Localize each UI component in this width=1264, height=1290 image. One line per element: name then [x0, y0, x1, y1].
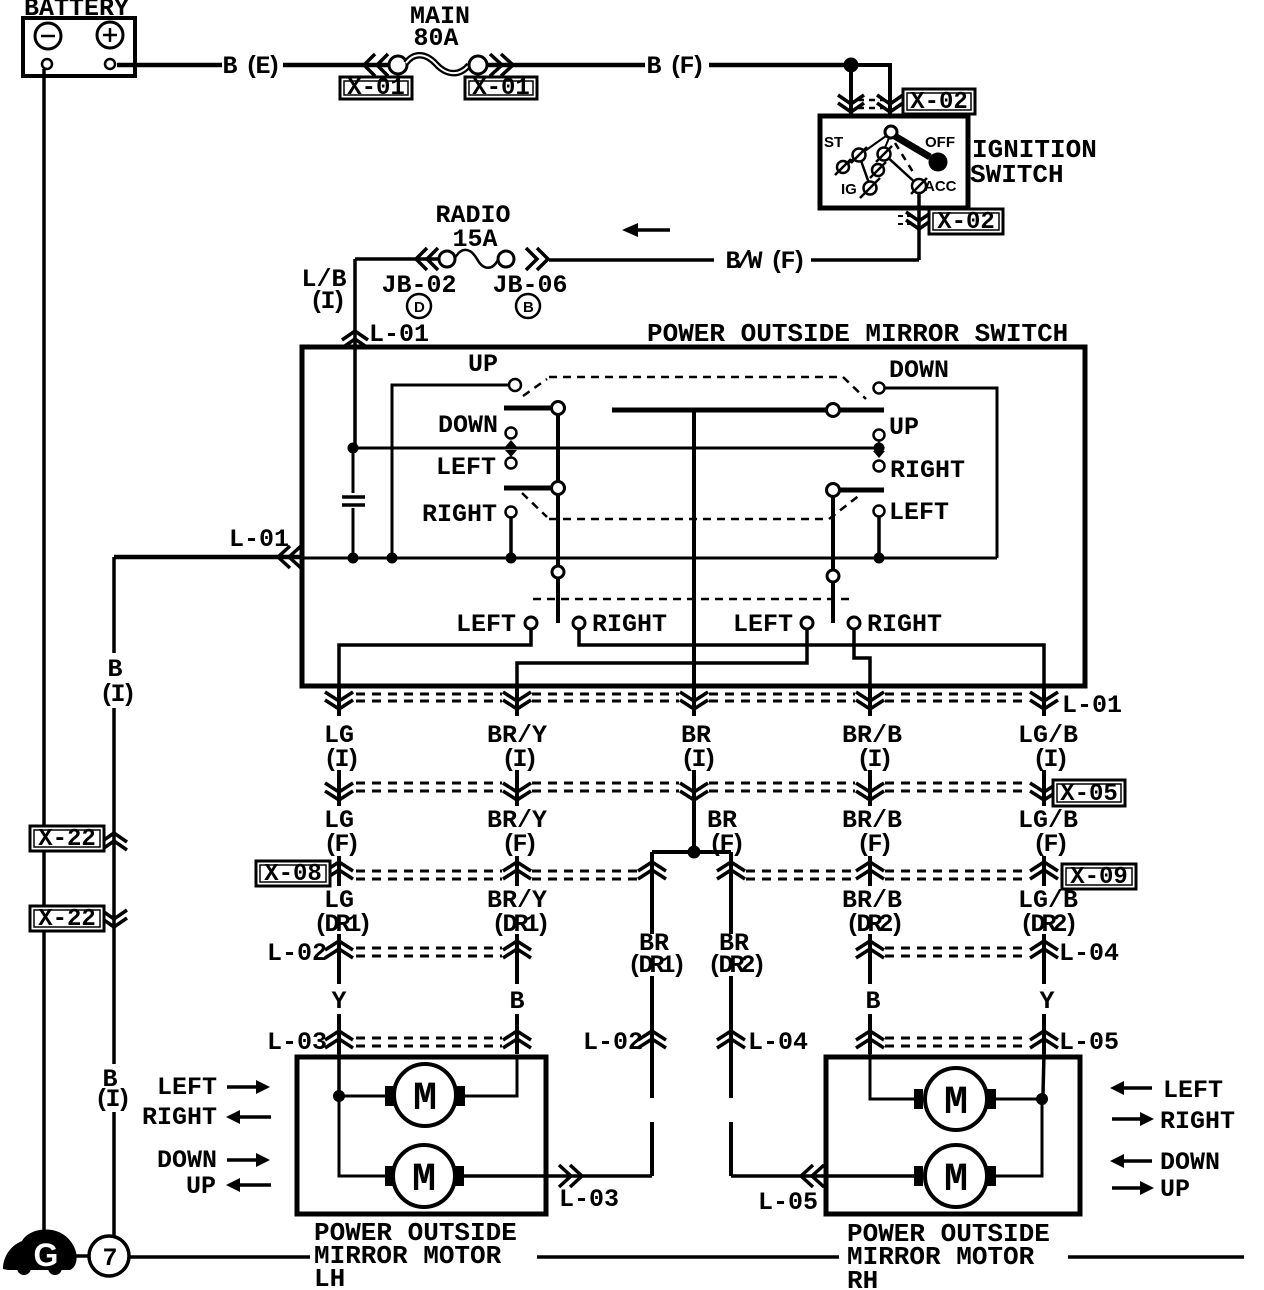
power outside mirror motor RH box: [826, 1057, 1080, 1214]
svg-text:G: G: [34, 1237, 59, 1273]
capacitor: [342, 453, 365, 558]
contact bar left/right (RH): [839, 488, 884, 493]
svg-text:X-08: X-08: [264, 861, 322, 888]
fuse RADIO 15A: [416, 201, 548, 270]
svg-text:LEFT: LEFT: [157, 1073, 217, 1102]
wire BR (DR1): [650, 852, 654, 1176]
wire B(E) battery positive to MAIN fuse: [117, 63, 222, 68]
mechanical linkage dashed (lower): [522, 493, 861, 519]
wire RH motor2 output L-05: [731, 1174, 914, 1178]
svg-text:B: B: [509, 987, 524, 1016]
RH mirror direction arrows: [1110, 1076, 1235, 1204]
connector X-22 chevrons (lower): [101, 910, 127, 927]
harness L-02/L-04 chevrons: [325, 941, 1058, 958]
wire LEFT2 to BR/Y output: [517, 629, 807, 688]
svg-text:OFF: OFF: [925, 134, 955, 151]
internal bus wire: [302, 557, 997, 560]
contact bar up/down (LH): [504, 406, 551, 411]
svg-text:M: M: [412, 1158, 436, 1203]
svg-text:(I): (I): [501, 745, 534, 774]
svg-text:15A: 15A: [452, 225, 497, 254]
motor M RH left/right: [914, 1145, 996, 1207]
svg-text:X-02: X-02: [937, 209, 995, 236]
connector X-05 dashed: [356, 783, 1029, 791]
pole LH up/down: [556, 414, 560, 482]
wire into RH motor (Y): [1043, 1054, 1044, 1094]
wire BR (DR2): [729, 852, 733, 1176]
svg-text:B/W (F): B/W (F): [725, 247, 802, 276]
svg-text:RIGHT: RIGHT: [867, 610, 942, 639]
svg-text:L-02: L-02: [583, 1028, 643, 1057]
svg-text:DOWN: DOWN: [438, 411, 498, 440]
ignition switch box: [820, 116, 968, 208]
contact arrows (LH): [505, 440, 517, 447]
contact arrows (RH): [873, 441, 885, 448]
svg-text:(DR1): (DR1): [313, 910, 368, 939]
ignition switch internals: [824, 126, 957, 198]
svg-text:(I): (I): [680, 745, 713, 774]
svg-text:RH: RH: [847, 1266, 878, 1290]
svg-text:SWITCH: SWITCH: [970, 160, 1064, 190]
wire into RH motor (B): [870, 1054, 914, 1099]
harness wire LG column: [337, 688, 341, 1054]
wire L-01 feed into switch: [114, 555, 302, 560]
svg-text:L-05: L-05: [1059, 1028, 1119, 1057]
svg-text:LEFT: LEFT: [1163, 1076, 1223, 1105]
contact bar up/down (RH) with BR output: [612, 408, 884, 413]
wire LEFT1 to LG output: [339, 629, 531, 688]
mechanical linkage dashed (upper): [523, 377, 866, 399]
connector X-08/X-09 dashed: [356, 871, 1029, 879]
svg-text:DOWN: DOWN: [1160, 1148, 1220, 1177]
svg-text:LH: LH: [314, 1264, 345, 1290]
node RH motor junction: [1036, 1093, 1048, 1105]
terminal UP (LH): [509, 379, 521, 391]
motor M LH up/down: [385, 1064, 465, 1126]
wire RIGHT terminal to bus: [509, 518, 513, 558]
pole RH left/right: [831, 496, 835, 570]
svg-text:(DR2): (DR2): [1019, 910, 1074, 939]
svg-text:LEFT: LEFT: [733, 610, 793, 639]
L-05 exit chevrons: [801, 1165, 824, 1187]
harness wire BR column: [692, 688, 696, 848]
motor M RH up/down: [914, 1068, 996, 1130]
svg-text:Y: Y: [1039, 987, 1054, 1016]
svg-text:M: M: [944, 1158, 968, 1203]
svg-text:(F): (F): [708, 830, 741, 859]
harness L-03/L-05 chevrons: [325, 1031, 1058, 1048]
svg-text:X-01: X-01: [347, 75, 405, 102]
svg-text:(I): (I): [856, 745, 889, 774]
svg-text:RIGHT: RIGHT: [422, 500, 497, 529]
node 7: [71, 1236, 129, 1276]
wire LH motor2 output L-03: [464, 1174, 652, 1178]
wire LH motor1 to B column: [465, 1057, 517, 1096]
bottom terminal RIGHT (2): [848, 617, 860, 629]
wire battery negative to ground: [42, 69, 46, 1240]
wire B(F) fuse to ignition switch: [487, 63, 645, 68]
power outside mirror motor LH box: [297, 1057, 546, 1214]
wire L/B from fuse to mirror switch: [355, 257, 439, 261]
current direction arrow: [622, 223, 670, 237]
svg-text:RIGHT: RIGHT: [142, 1103, 217, 1132]
terminal UP (RH): [874, 430, 885, 441]
wire BR output pole: [692, 410, 696, 688]
svg-text:(I): (I): [309, 287, 342, 316]
bottom terminal LEFT (1): [525, 617, 537, 629]
connector X-05 chevrons: [325, 783, 1058, 800]
svg-text:80A: 80A: [413, 24, 458, 53]
contact bar left/right (LH): [504, 486, 551, 491]
svg-text:(I): (I): [1032, 745, 1065, 774]
svg-text:(F): (F): [856, 830, 889, 859]
svg-text:(DR1): (DR1): [491, 910, 546, 939]
connector X-02 (upper) chevrons: [838, 95, 903, 112]
bottom terminal RIGHT (1): [573, 617, 585, 629]
svg-text:LEFT: LEFT: [436, 453, 496, 482]
svg-text:BATTERY: BATTERY: [24, 0, 129, 23]
connector X-02 (lower) label box: [929, 209, 1003, 236]
svg-text:DOWN: DOWN: [157, 1146, 217, 1175]
power outside mirror switch box: [302, 347, 1085, 686]
wire ACC output: [917, 192, 921, 260]
connector X-09 label box: [1062, 864, 1136, 891]
node LH motor junction: [333, 1090, 345, 1102]
connector X-08 label box: [256, 861, 330, 888]
wire B/W(F): [811, 258, 919, 262]
wire into LH motor (Y): [337, 1054, 341, 1096]
svg-text:RIGHT: RIGHT: [890, 456, 965, 485]
terminal RIGHT (RH): [874, 461, 885, 472]
wire DOWN terminal to bus (RH): [884, 388, 997, 558]
connector X-01 (left): [340, 75, 412, 102]
ground bus wire: [129, 1255, 1244, 1259]
svg-text:DOWN: DOWN: [889, 356, 949, 385]
terminal RIGHT (LH): [506, 507, 517, 518]
node ignition feed junction: [844, 58, 859, 73]
connector X-05 label box: [1053, 780, 1125, 808]
svg-text:(I): (I): [94, 1085, 127, 1114]
svg-text:M: M: [413, 1077, 437, 1122]
connector X-08/X-09 chevrons: [325, 862, 1058, 879]
bottom terminal LEFT (2): [801, 617, 813, 629]
battery: [23, 18, 135, 76]
svg-text:B: B: [523, 299, 534, 316]
wire RH motor1 to junction: [996, 1098, 1042, 1101]
wire RIGHT1 to LG/B output: [579, 629, 1044, 688]
svg-text:(F): (F): [1032, 830, 1065, 859]
svg-text:ST: ST: [824, 134, 843, 151]
harness L-01 dashed: [356, 694, 1029, 701]
svg-text:D: D: [414, 299, 425, 316]
terminal DOWN (LH): [506, 428, 517, 439]
svg-text:(DR2): (DR2): [707, 951, 762, 980]
wire junction loop to ignition pivot: [851, 65, 890, 129]
svg-text:L-01: L-01: [229, 525, 289, 554]
svg-text:L-04: L-04: [1059, 939, 1119, 968]
connector X-01 (right): [465, 75, 537, 102]
svg-text:LEFT: LEFT: [456, 610, 516, 639]
wire RIGHT2 to BR/B output: [854, 629, 870, 688]
L-03 exit chevrons: [559, 1165, 582, 1187]
svg-text:X-09: X-09: [1070, 864, 1128, 891]
svg-text:X-05: X-05: [1060, 781, 1118, 808]
junction dots: [348, 443, 359, 454]
wire junction to LH motor2: [339, 1096, 385, 1176]
junction block JB-02 terminal D: [381, 271, 456, 318]
terminal DOWN (RH): [874, 383, 885, 394]
connector X-22 chevrons (upper): [101, 833, 127, 850]
svg-text:L-01: L-01: [1062, 691, 1122, 720]
harness L-01 connector chevrons: [325, 692, 1058, 709]
harness wire BR/Y column: [515, 688, 519, 1054]
svg-text:(F): (F): [501, 830, 534, 859]
svg-text:(I): (I): [99, 680, 132, 709]
common feed wire: [353, 447, 879, 450]
svg-text:LEFT: LEFT: [889, 498, 949, 527]
harness wire LG/B column: [1042, 688, 1046, 1054]
svg-text:B (F): B (F): [646, 52, 701, 81]
motor M LH left/right: [385, 1145, 464, 1207]
svg-text:IG: IG: [841, 181, 857, 198]
connector X-22 label box (upper): [30, 826, 104, 853]
svg-text:X-22: X-22: [38, 906, 96, 933]
svg-text:X-01: X-01: [472, 75, 530, 102]
wire UP feed (LH half): [392, 385, 509, 558]
svg-text:(DR2): (DR2): [845, 910, 900, 939]
svg-text:L-03: L-03: [267, 1028, 327, 1057]
svg-text:B (E): B (E): [222, 52, 277, 81]
harness L-02/L-04 dashed: [356, 948, 1029, 956]
wire B(I) from L-01 to ground node: [112, 557, 116, 1236]
mechanical linkage dashed (bottom): [533, 598, 855, 601]
svg-text:UP: UP: [186, 1172, 216, 1201]
svg-text:(I): (I): [323, 745, 356, 774]
wire LEFT terminal to bus (RH): [877, 517, 881, 558]
fuse MAIN 80A: [364, 2, 513, 76]
terminal LEFT (LH): [506, 458, 517, 469]
wire junction to RH motor2: [996, 1099, 1042, 1176]
svg-text:L-04: L-04: [748, 1028, 808, 1057]
svg-text:(DR1): (DR1): [627, 951, 682, 980]
svg-text:L-02: L-02: [267, 939, 327, 968]
svg-text:X-02: X-02: [910, 89, 968, 116]
svg-text:X-22: X-22: [38, 826, 96, 853]
connector X-02 (lower) chevrons: [898, 212, 932, 229]
svg-text:L-03: L-03: [559, 1185, 619, 1214]
svg-text:UP: UP: [468, 350, 498, 379]
svg-text:B: B: [865, 987, 880, 1016]
harness L-01 entry chevrons: [342, 331, 368, 348]
svg-text:ACC: ACC: [924, 178, 957, 195]
harness L-03/L-05 dashed: [356, 1038, 1029, 1046]
svg-text:Y: Y: [331, 987, 346, 1016]
connector X-22 label box (lower): [30, 906, 104, 933]
svg-text:UP: UP: [889, 413, 919, 442]
ground body G: [3, 1229, 77, 1275]
svg-text:7: 7: [102, 1244, 117, 1273]
svg-text:L-05: L-05: [758, 1188, 818, 1217]
wire to LH motor1: [339, 1095, 385, 1098]
svg-text:UP: UP: [1160, 1175, 1190, 1204]
svg-text:M: M: [944, 1081, 968, 1126]
connector X-02 (upper) label box: [903, 89, 975, 116]
svg-text:RIGHT: RIGHT: [1160, 1107, 1235, 1136]
junction block JB-06 terminal B: [492, 271, 567, 318]
LH mirror direction arrows: [142, 1073, 271, 1201]
harness wire BR/B column: [868, 688, 872, 1054]
svg-text:(F): (F): [323, 830, 356, 859]
terminal LEFT (RH): [874, 506, 885, 517]
L-01 feed chevrons: [278, 546, 301, 568]
node BR splice (F): [688, 846, 701, 859]
svg-text:RIGHT: RIGHT: [592, 610, 667, 639]
